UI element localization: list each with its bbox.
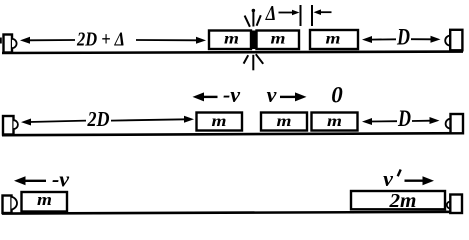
gap dimension delta (row 1) [265,1,332,26]
left wall bumper (row 2) [3,116,18,135]
block 2m (row 3) [351,191,445,209]
explosive charge bar between blocks [251,31,257,50]
wall back-plate tick at image edge (row 1) [0,38,2,44]
svg-text:v: v [383,166,393,191]
svg-text:-v: -v [223,82,240,107]
dimension arrow 2D+delta (row 1) [20,37,206,44]
label v' (row 3) [383,166,401,191]
block m #2 (row 1) [257,31,300,50]
svg-text:2D: 2D [87,107,110,131]
block m #3 (row 1) [310,30,358,49]
right wall bumper (row 3) [447,195,462,214]
svg-text:D: D [397,106,411,131]
block m #3 (row 2) [312,113,358,131]
left wall bumper (row 1) [4,35,17,53]
svg-text:D: D [396,24,410,49]
svg-text:m: m [37,190,52,209]
block m #1 (row 2) [197,113,243,131]
track (row 2) [2,133,463,135]
svg-text:2D + Δ: 2D + Δ [76,29,125,51]
dimension arrow D (row 2) [362,117,440,125]
svg-text:v: v [267,82,277,107]
block m (row 3) [22,192,68,212]
track (row 1) [2,52,463,53]
svg-text:m: m [224,31,239,48]
right wall bumper (row 1) [445,30,462,51]
velocity arrow -v (row 3) [14,176,46,185]
svg-text:m: m [327,113,342,130]
svg-text:-v: -v [52,166,69,191]
block m #1 (row 1) [209,31,251,50]
right wall bumper (row 2) [446,114,463,133]
svg-text:m: m [326,30,341,47]
velocity arrow -v (row 2) [193,92,218,101]
svg-text:Δ: Δ [265,1,276,25]
starburst explosion flash [244,9,264,71]
dimension arrow D (row 1) [362,36,441,43]
velocity arrow v' (row 3) [405,176,435,185]
track (row 3) [2,212,463,214]
svg-text:0: 0 [331,83,343,108]
svg-text:m: m [271,31,286,48]
svg-text:m: m [277,113,292,130]
svg-text:2m: 2m [388,190,416,212]
velocity arrow v (row 2) [280,92,307,101]
svg-text:m: m [212,113,227,130]
left wall bumper (row 3) [3,196,18,214]
block m #2 (row 2) [261,113,307,131]
dimension arrow 2D (row 2) [21,116,194,126]
